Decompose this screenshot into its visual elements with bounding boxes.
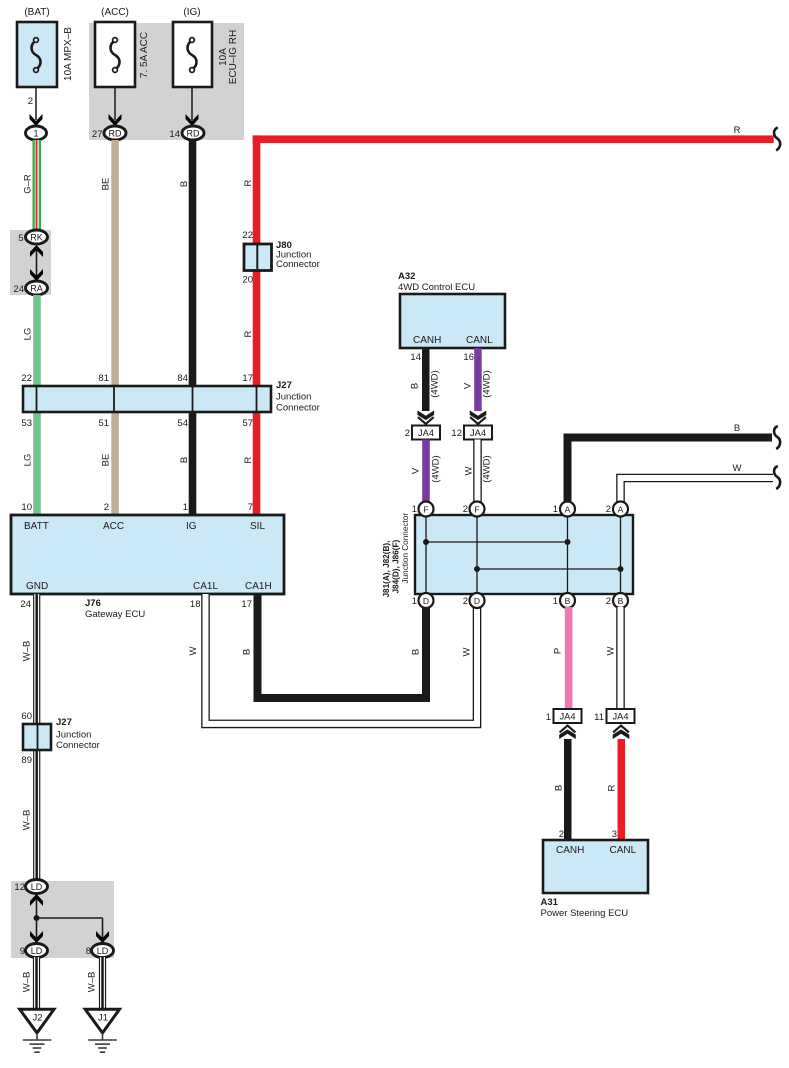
svg-text:1: 1 [183,502,188,513]
connector 1 JA4 [546,709,582,723]
arrow down into 9 LD [30,931,43,943]
Gateway ECU J76 box [11,515,284,594]
svg-text:A31: A31 [541,897,559,908]
A32 4WD Control ECU box [398,271,505,348]
svg-text:Junction Connector: Junction Connector [401,513,410,584]
svg-text:F: F [423,505,428,515]
wire B (4WD) from CANH [422,348,430,411]
chevron arrow up into 1 JA4 [559,726,576,739]
labels below gateway: 24 J76 Gateway ECU 18 17 [20,598,252,620]
pin circle 2 A [606,502,628,517]
svg-text:V: V [463,382,474,389]
svg-text:R: R [243,330,254,337]
svg-text:B: B [179,181,190,187]
wire labels between J27 and gateway: LG BE B R [23,454,255,467]
svg-text:1: 1 [553,596,558,607]
svg-text:SIL: SIL [250,521,265,532]
svg-text:B: B [242,649,253,655]
svg-text:J81(A), J82(B),: J81(A), J82(B), [382,541,391,598]
svg-text:W–B: W–B [22,972,33,993]
svg-text:W: W [462,647,473,656]
svg-text:60: 60 [21,711,32,722]
svg-text:27: 27 [92,129,103,140]
svg-text:2: 2 [405,428,410,439]
svg-text:CANH: CANH [556,845,584,856]
svg-text:CANH: CANH [413,335,441,346]
svg-text:Power Steering ECU: Power Steering ECU [541,908,629,919]
wire B from CA1H to D1 [258,594,427,698]
svg-text:G–R: G–R [23,174,34,194]
svg-text:LD: LD [31,946,43,956]
fuse (BAT) 10A MPX-B [17,7,74,120]
connector 11 JA4 [594,709,634,723]
svg-text:JA4: JA4 [418,428,434,438]
svg-text:V: V [411,467,422,474]
svg-text:ACC: ACC [103,521,124,532]
svg-text:D: D [474,596,480,606]
pin circle 1 F [412,502,434,517]
svg-text:17: 17 [242,373,253,384]
junction connector J27 long box [23,380,320,414]
svg-text:R: R [243,456,254,463]
labels above junction connector J27 long: 22 81 84 17 [21,373,253,384]
svg-text:W: W [188,646,199,655]
svg-text:P: P [553,648,564,654]
wire B from A1 to right edge [568,438,773,506]
wire R from IG fuse row to right edge and down to SIL [253,135,774,515]
rotated caption J81(A), J82(B), J84(D), J86(F) Junction Connector [382,513,410,598]
arrow up into 12 LD [30,894,43,906]
break symbol at B wire end [774,426,780,449]
wire V from 2 JA4 to F1 [422,440,430,506]
svg-text:22: 22 [21,373,32,384]
svg-text:2: 2 [28,96,33,107]
svg-text:J76: J76 [85,598,101,609]
link lines and junction dot [34,899,103,944]
connector oval 1 [26,126,47,140]
svg-text:J2: J2 [32,1013,42,1024]
svg-text:20: 20 [242,275,253,286]
svg-text:89: 89 [21,755,32,766]
wire B from 14 RD to IG [189,140,197,515]
svg-text:Connector: Connector [276,403,320,414]
svg-text:53: 53 [21,418,32,429]
svg-text:CA1L: CA1L [193,581,218,592]
chevron arrow into 2 JA4 [418,411,435,424]
wire R from 11 JA4 to A31 CANL [618,739,626,840]
svg-text:2: 2 [463,596,468,607]
arrow up into RK and arrow down into RA with link line [30,245,43,281]
pin circle 1 A [553,502,575,517]
svg-text:GND: GND [26,581,48,592]
svg-text:BE: BE [101,178,112,191]
svg-text:B: B [618,596,624,606]
svg-text:1: 1 [546,712,551,723]
wire W from 12 JA4 to F2 [473,440,482,506]
wire W-B from 8 LD to ground J1 [99,957,106,1010]
break symbol at W wire end [774,466,780,489]
svg-text:(4WD): (4WD) [431,455,442,482]
wire W-B from GND down to 12 LD [33,594,40,882]
svg-text:1: 1 [553,504,558,515]
svg-text:22: 22 [242,230,253,241]
svg-text:54: 54 [177,418,188,429]
svg-text:(BAT): (BAT) [24,7,49,18]
solid arrow into connector 14 RD [186,114,199,126]
svg-text:A: A [618,505,624,515]
svg-text:2: 2 [606,596,611,607]
svg-text:J1: J1 [98,1013,108,1024]
svg-text:1: 1 [33,129,38,139]
svg-text:(4WD): (4WD) [482,455,493,482]
pin circle 1 D [412,593,434,608]
solid arrow into connector 1 [30,114,43,126]
svg-text:J27: J27 [276,380,292,391]
svg-text:11: 11 [594,712,604,723]
chevron arrow into 12 JA4 [470,411,487,424]
svg-text:2: 2 [559,829,564,840]
svg-text:(4WD): (4WD) [482,370,493,397]
svg-text:24: 24 [20,599,31,610]
svg-text:LD: LD [97,946,109,956]
arrow down into 8 LD [96,931,109,943]
svg-text:B: B [734,423,740,434]
svg-text:14: 14 [169,129,180,140]
svg-text:D: D [423,596,429,606]
svg-text:F: F [474,505,479,515]
svg-text:RD: RD [109,129,122,139]
svg-text:1: 1 [412,504,417,515]
ground J2 [20,1009,54,1052]
svg-text:1: 1 [412,596,417,607]
svg-text:RD: RD [187,129,200,139]
svg-text:R: R [607,784,618,791]
svg-text:B: B [179,457,190,463]
svg-text:2: 2 [104,502,109,513]
svg-text:Junction: Junction [276,392,311,403]
labels below J27 long: 53 51 54 57 [21,418,253,429]
svg-text:12: 12 [14,882,25,893]
svg-text:W–B: W–B [22,641,33,662]
svg-text:(4WD): (4WD) [430,370,441,397]
gray background block behind LD connectors [11,881,114,958]
svg-text:W: W [606,646,617,655]
svg-text:B: B [554,785,565,791]
wire W from CA1L to D2 [206,594,478,724]
pin circle 2 D [463,593,485,608]
connector oval 8 LD [86,944,114,958]
svg-text:(IG): (IG) [183,7,200,18]
svg-text:12: 12 [451,428,462,439]
pin numbers above gateway: 10 2 1 7 [21,502,253,513]
svg-text:2: 2 [606,504,611,515]
fuse (IG) 10A ECU-IG RH [173,7,239,120]
svg-text:JA4: JA4 [470,428,486,438]
wire W-B from 9 LD to ground J2 [33,957,40,1010]
svg-text:IG: IG [186,521,197,532]
junction connector J80 [242,230,319,286]
svg-text:RA: RA [30,284,43,294]
connector oval 12 LD [14,880,47,894]
svg-text:W: W [464,466,475,475]
svg-text:16: 16 [463,352,474,363]
junction connector J27 small [21,711,99,766]
connector oval 9 LD [20,944,48,958]
svg-text:Gateway ECU: Gateway ECU [85,609,145,620]
svg-text:4WD Control ECU: 4WD Control ECU [398,282,475,293]
svg-text:Junction: Junction [56,730,91,741]
svg-text:(ACC): (ACC) [101,7,129,18]
wire B from 1 JA4 to A31 CANH [564,739,572,840]
svg-text:R: R [243,179,254,186]
svg-text:ECU–IG RH: ECU–IG RH [228,30,239,84]
svg-text:7. 5A ACC: 7. 5A ACC [139,32,150,78]
svg-text:BE: BE [101,454,112,467]
svg-text:57: 57 [242,418,253,429]
svg-text:BATT: BATT [24,521,49,532]
connector oval 24 RA [13,281,47,295]
svg-text:B: B [410,383,421,389]
connector oval 5 RK [18,230,47,244]
svg-text:R: R [734,125,741,136]
svg-text:10A MPX–B: 10A MPX–B [63,27,74,81]
wire W from B2 to 11 JA4 [616,607,625,709]
svg-text:A: A [565,505,571,515]
connector 12 JA4 [451,426,492,440]
svg-text:LG: LG [23,454,34,467]
connector oval 27 RD [92,126,126,140]
A31 Power Steering ECU box [541,840,649,919]
svg-text:81: 81 [98,373,109,384]
fuse (ACC) 7.5A ACC [95,7,150,120]
svg-text:CANL: CANL [610,845,637,856]
svg-text:W–B: W–B [87,972,98,993]
svg-text:B: B [565,596,571,606]
svg-text:LD: LD [31,882,43,892]
wire W from A2 to right edge [621,478,774,505]
svg-text:18: 18 [190,599,201,610]
gray background block behind ACC/IG fuses [89,23,244,140]
svg-text:B: B [411,649,422,655]
svg-text:84: 84 [177,373,188,384]
svg-text:Connector: Connector [276,259,320,270]
chevron arrow up into 11 JA4 [613,726,630,739]
solid arrow into connector 27 RD [109,114,122,126]
svg-text:CA1H: CA1H [245,581,272,592]
svg-text:J84(D), J86(F): J84(D), J86(F) [392,540,401,594]
ground J1 [85,1009,119,1052]
svg-text:W: W [733,463,742,474]
svg-text:JA4: JA4 [559,712,575,722]
svg-text:CANL: CANL [466,335,493,346]
wire BE from 27 RD to ACC [111,140,119,515]
wire G-R striped from connector 1 to RK [33,140,42,231]
svg-text:10: 10 [21,502,32,513]
svg-text:5: 5 [18,233,23,244]
svg-text:51: 51 [98,418,109,429]
svg-text:17: 17 [241,599,252,610]
svg-text:RK: RK [30,233,43,243]
svg-text:LG: LG [23,328,34,341]
break symbol at R wire right end [774,128,780,151]
gray background block behind RK/RA connectors [10,230,51,295]
svg-text:24: 24 [13,284,24,295]
svg-text:J27: J27 [56,717,72,728]
pin circle 2 F [463,502,485,517]
svg-text:3: 3 [612,829,617,840]
svg-text:Connector: Connector [56,740,100,751]
svg-text:2: 2 [463,504,468,515]
svg-text:JA4: JA4 [612,712,628,722]
svg-text:14: 14 [410,352,421,363]
junction connector J81/J82/J84/J86 box [415,515,633,594]
pin circle 1 B [553,593,575,608]
wire LG from RA to BATT [33,295,41,515]
connector 2 JA4 [405,426,440,440]
svg-text:A32: A32 [398,271,415,282]
connector oval 14 RD [169,126,204,140]
pin circle 2 B [606,593,628,608]
svg-text:7: 7 [248,502,253,513]
wire V (4WD) from CANL [474,348,482,411]
wire P from B1 to 1 JA4 [565,607,573,709]
svg-text:W–B: W–B [22,810,33,831]
